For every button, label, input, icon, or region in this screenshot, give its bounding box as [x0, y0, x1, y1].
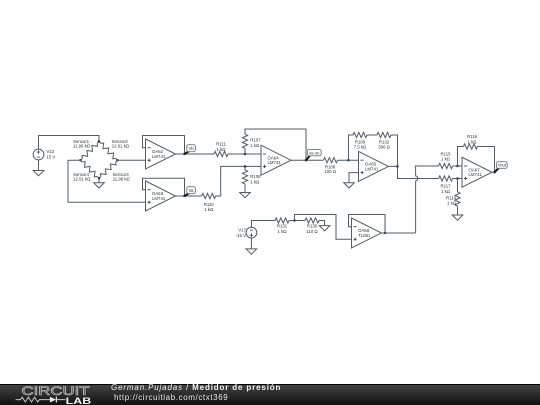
- resistor R131: [275, 218, 289, 223]
- wire R114 to ground: [457, 206, 459, 215]
- node bridge left: [79, 159, 81, 161]
- node bridge right: [116, 159, 118, 161]
- wire OA65 output: [389, 165, 398, 167]
- node OA64 output (Va-Vb): [305, 159, 307, 161]
- node OA65 output junction: [396, 165, 398, 167]
- value label R130 110 Ohm: [306, 224, 318, 234]
- svg-text:TL081: TL081: [358, 233, 371, 238]
- ground below bridge: [94, 183, 105, 188]
- wire V17 bottom to ground: [250, 238, 252, 249]
- svg-text:LM741: LM741: [152, 196, 166, 201]
- wire R132 down to OA65 output: [391, 135, 398, 166]
- node label Vb: [185, 145, 196, 154]
- svg-text:1 kΩ: 1 kΩ: [441, 156, 451, 161]
- ground below V17: [246, 249, 257, 254]
- resistor R106: [242, 170, 247, 184]
- svg-text:R131: R131: [277, 224, 288, 229]
- resistor R132: [377, 132, 391, 137]
- svg-text:R117: R117: [441, 184, 452, 189]
- value label R106 1 kOhm: [250, 174, 261, 184]
- wire R109 to R132: [367, 134, 377, 136]
- resistor R108: [324, 158, 338, 163]
- wire OA62 output to R111: [176, 153, 215, 155]
- value label R108 100 Ohm: [324, 165, 336, 175]
- wire junction to OA68 + input: [295, 215, 352, 240]
- svg-text:12.01 kΩ: 12.01 kΩ: [73, 176, 91, 181]
- ground at OA65 + input: [344, 183, 355, 188]
- wire R114 top lead: [457, 179, 459, 193]
- resistor R111: [214, 151, 228, 156]
- wire R115 to OA67 - input: [453, 165, 462, 167]
- svg-text:Va: Va: [189, 188, 195, 193]
- op-amp OA65 LM741: [359, 151, 389, 181]
- wire OA63 output to R110: [176, 195, 202, 197]
- svg-text:7.5 kΩ: 7.5 kΩ: [354, 144, 367, 149]
- svg-text:1 kΩ: 1 kΩ: [441, 189, 451, 194]
- value label R116 1 kOhm: [467, 134, 478, 144]
- svg-text:1 kΩ: 1 kΩ: [217, 147, 227, 152]
- node bridge top: [98, 140, 100, 142]
- wire R106 to ground: [244, 184, 246, 193]
- value label Sensor4 12.01 kOhm: [73, 172, 91, 181]
- wire R130 to ground: [319, 221, 325, 226]
- credits text line 2: [114, 394, 228, 402]
- svg-text:1 kΩ: 1 kΩ: [250, 179, 260, 184]
- wire R110 up to OA64 + input: [216, 166, 261, 196]
- svg-text:LM741: LM741: [268, 160, 282, 165]
- svg-text:R111: R111: [216, 142, 226, 147]
- wire V13 top to bridge top node: [39, 136, 100, 150]
- footer bar: [0, 384, 540, 405]
- wire bridge left node to OA63 + input: [68, 160, 146, 202]
- wire bridge right node to OA62 + input: [118, 159, 146, 161]
- svg-text:100 Ω: 100 Ω: [324, 169, 336, 174]
- wire R108 to OA65 - input: [338, 159, 359, 161]
- node label Va: [185, 187, 196, 196]
- ground after R130: [319, 226, 330, 231]
- svg-text:R106: R106: [250, 174, 261, 179]
- node OA64 + input junction: [244, 165, 246, 167]
- svg-text:R130: R130: [307, 224, 318, 229]
- wire OA65 output to R117: [398, 166, 439, 178]
- svg-text:11.99 kΩ: 11.99 kΩ: [73, 144, 91, 149]
- wire OA64 feedback rail: [245, 129, 306, 160]
- voltage source V17 -15 V: [246, 227, 257, 238]
- node OA63 output (Va): [183, 195, 185, 197]
- svg-text:12.01 kΩ: 12.01 kΩ: [112, 144, 130, 149]
- value label Sensor2 12.01 kOhm: [112, 139, 130, 148]
- wire OA68 output right: [382, 232, 416, 234]
- resistor R115: [439, 163, 453, 168]
- node R131/R130 junction: [293, 219, 295, 221]
- value label R109 7.5 kOhm: [354, 140, 367, 150]
- resistor Sensor4 (bridge arm bottom-left): [81, 160, 100, 178]
- value label R132 390 Ohm: [378, 140, 390, 150]
- op-amp OA68 TL081: [352, 218, 382, 248]
- value label Sensor3 11.99 kOhm: [113, 172, 131, 181]
- svg-text:V17: V17: [238, 227, 246, 232]
- wire OA64 output to R108: [291, 159, 324, 161]
- resistor R110: [202, 193, 216, 198]
- resistor Sensor3 (bridge arm bottom-right): [99, 160, 118, 178]
- node OA67 + input junction: [456, 177, 458, 179]
- ground below R106: [240, 193, 251, 198]
- wire OA63 feedback loop: [143, 178, 185, 196]
- wire R106 top lead: [244, 166, 246, 170]
- wire OA67 feedback left leg: [458, 147, 464, 167]
- op-amp OA67 LM741: [462, 157, 492, 187]
- value label R111 1 kOhm: [216, 142, 226, 152]
- wire OA65 feedback left leg: [349, 135, 354, 160]
- wire OA62 feedback loop: [143, 136, 185, 155]
- svg-text:Vb: Vb: [188, 146, 194, 151]
- node OA65 - input junction: [347, 159, 349, 161]
- resistor R114: [455, 192, 460, 206]
- resistor R130: [305, 218, 319, 223]
- value label Sensor1 11.99 kOhm: [73, 139, 91, 148]
- wire R131 to R130: [289, 220, 305, 222]
- resistor R116: [464, 144, 478, 149]
- resistor Sensor1 (bridge arm top-left): [81, 142, 100, 161]
- svg-text:1 kΩ: 1 kΩ: [204, 207, 214, 212]
- svg-text:1 kΩ: 1 kΩ: [250, 143, 260, 148]
- wire bridge bottom to ground: [98, 178, 100, 182]
- svg-text:110 Ω: 110 Ω: [306, 229, 318, 234]
- svg-text:R107: R107: [250, 138, 261, 143]
- svg-text:15 V: 15 V: [47, 155, 56, 160]
- wire OA68 feedback loop: [349, 215, 386, 234]
- svg-text:1 kΩ: 1 kΩ: [468, 139, 478, 144]
- wire OA68 output vertical with hop over Va-Vb wire: [416, 166, 439, 233]
- wire R107 bottom lead: [244, 148, 246, 154]
- wire OA67 output: [492, 171, 495, 173]
- wire V13 bottom to ground: [38, 160, 40, 171]
- svg-text:LM741: LM741: [152, 154, 166, 159]
- svg-text:1 kΩ: 1 kΩ: [278, 229, 288, 234]
- svg-text:11.99 kΩ: 11.99 kΩ: [113, 176, 131, 181]
- svg-text:LM741: LM741: [469, 172, 483, 177]
- op-amp OA63 LM741: [146, 181, 176, 211]
- voltage source V13 15 V: [33, 149, 44, 160]
- node bridge bottom: [98, 177, 100, 179]
- resistor R107: [242, 134, 247, 148]
- node label Va-Vb: [306, 149, 321, 160]
- svg-text:R110: R110: [204, 202, 215, 207]
- wire OA65 + input to ground: [349, 173, 359, 183]
- op-amp OA62 LM741: [146, 139, 176, 169]
- value label R131 1 kOhm: [277, 224, 288, 234]
- svg-text:V13: V13: [47, 149, 55, 154]
- ground below V13: [33, 171, 44, 176]
- value label V17 -15 V: [236, 227, 247, 237]
- node OA62 output (Vb): [183, 153, 185, 155]
- op-amp OA64 LM741: [261, 145, 291, 175]
- resistor R109: [353, 132, 367, 137]
- svg-text:-15 V: -15 V: [236, 233, 246, 238]
- node label Vout: [495, 162, 508, 173]
- svg-text:390 Ω: 390 Ω: [378, 144, 390, 149]
- node OA64 - input junction: [244, 153, 246, 155]
- wire V17 top to R131: [251, 221, 275, 228]
- value label R114 1 kOhm: [446, 195, 457, 205]
- wire R116 down to OA67 output: [478, 147, 495, 173]
- value label V13 15 V: [47, 149, 56, 160]
- value label R110 1 kOhm: [204, 202, 215, 212]
- resistor Sensor2 (bridge arm top-right): [99, 142, 118, 161]
- svg-text:Va-Vb: Va-Vb: [309, 150, 320, 155]
- wire R111 to OA64 - input: [228, 153, 261, 155]
- node OA67 - input junction: [456, 165, 458, 167]
- node OA68 output junction: [384, 232, 386, 234]
- resistor R117: [439, 176, 453, 181]
- svg-text:LM741: LM741: [365, 166, 379, 171]
- wire R117 to OA67 + input: [453, 178, 462, 180]
- value label R115 1 kOhm: [441, 151, 452, 161]
- credits text line 1: [111, 384, 281, 392]
- value label R117 1 kOhm: [441, 184, 452, 194]
- ground below R114: [452, 215, 463, 220]
- node OA67 output (Vout): [493, 171, 495, 173]
- svg-text:Vout: Vout: [498, 163, 507, 168]
- value label R107 1 kOhm: [250, 138, 261, 148]
- svg-text:1 kΩ: 1 kΩ: [447, 201, 457, 206]
